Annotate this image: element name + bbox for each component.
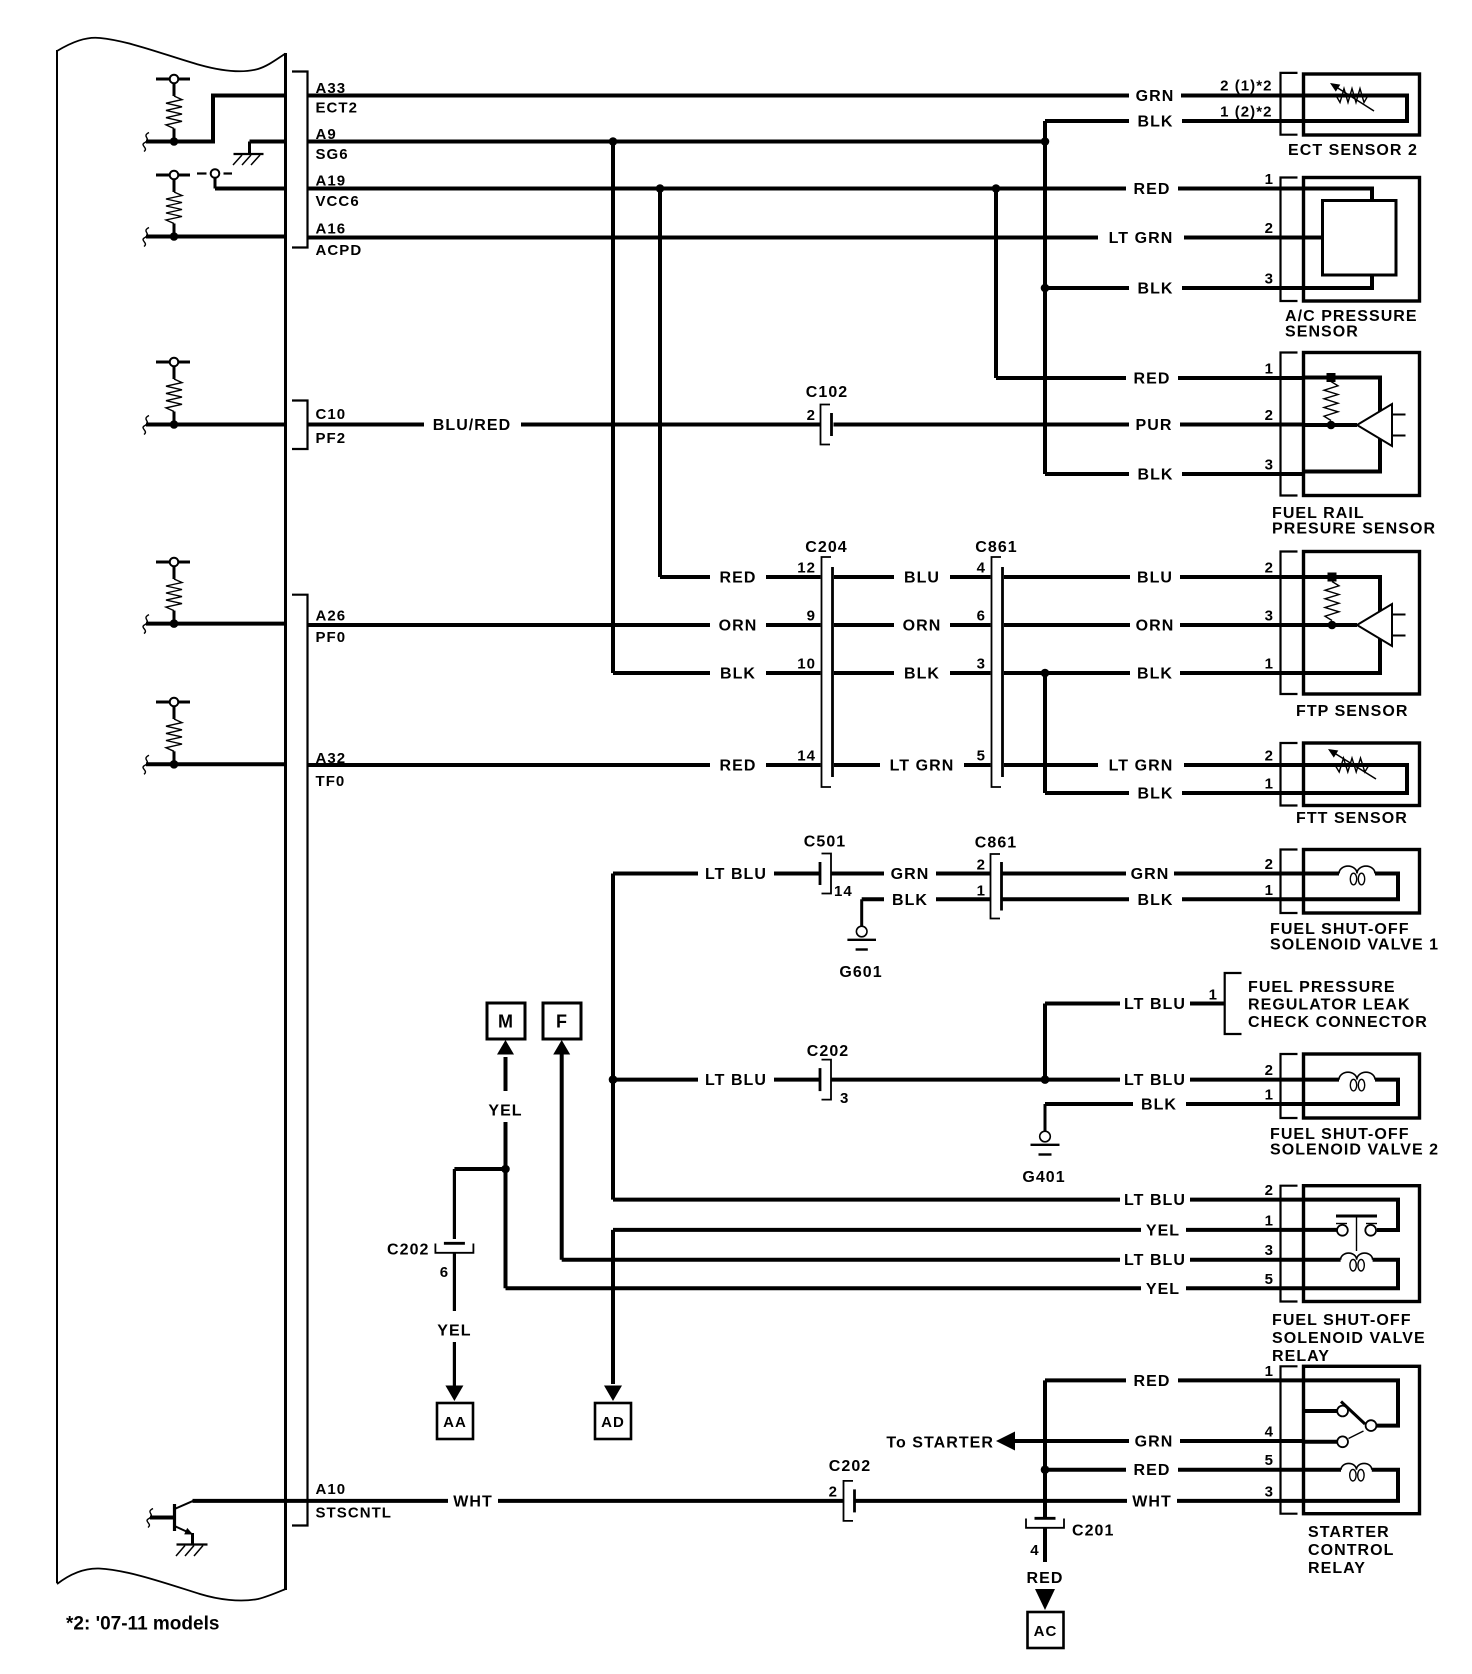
svg-text:2 (1)*2: 2 (1)*2 — [1220, 78, 1272, 95]
svg-text:ECT SENSOR 2: ECT SENSOR 2 — [1288, 142, 1418, 159]
svg-text:14: 14 — [834, 883, 853, 900]
component box FTT SENSOR — [1304, 743, 1420, 806]
svg-text:BLK: BLK — [892, 892, 928, 909]
wire FTP SENSOR pin 1 BLK — [613, 671, 710, 675]
arrowhead into AA box — [445, 1386, 463, 1402]
thermistor element FTT SENSOR — [1304, 765, 1408, 793]
ECU block left edge — [56, 50, 58, 1583]
svg-text:RED: RED — [1027, 1570, 1064, 1587]
svg-text:1: 1 — [1265, 361, 1274, 378]
svg-text:A/C PRESSURE: A/C PRESSURE — [1285, 308, 1418, 325]
svg-text:C202: C202 — [829, 1458, 871, 1475]
junction dot M branch — [501, 1165, 510, 1174]
svg-text:RED: RED — [1134, 371, 1171, 388]
svg-text:3: 3 — [1265, 271, 1274, 288]
connector C202 pin 6 — [444, 1242, 465, 1245]
component box FUEL SHUT-OFF SOLENOID VALVE RELAY — [1304, 1186, 1420, 1302]
svg-text:G401: G401 — [1022, 1169, 1065, 1186]
junction dot starter RED — [1041, 1465, 1050, 1474]
component bracket FUEL SHUT-OFF SOLENOID VALVE 1 — [1281, 850, 1298, 914]
internal wire PF2 pin C10 — [146, 423, 286, 427]
arrowhead into AD box — [604, 1386, 622, 1402]
svg-text:PUR: PUR — [1136, 417, 1173, 434]
wire YEL to FUEL SHUT-OFF SOLENOID VALVE RELAY pin 5 — [506, 1286, 1142, 1290]
svg-text:RED: RED — [1134, 1373, 1171, 1390]
connector C102 pin 2 — [821, 405, 831, 445]
flow box F — [543, 1003, 581, 1039]
svg-text:AA: AA — [443, 1414, 467, 1431]
svg-text:LT GRN: LT GRN — [1109, 758, 1174, 775]
ECU internal transistor STSCNTL driver — [173, 1504, 176, 1531]
svg-text:FUEL SHUT-OFF: FUEL SHUT-OFF — [1270, 1126, 1410, 1143]
arrowhead into M box — [497, 1040, 514, 1055]
internal wire STSCNTL pin A10 — [193, 1499, 308, 1503]
svg-text:LT BLU: LT BLU — [1124, 1072, 1186, 1089]
wire STARTER CONTROL RELAY pin 5 RED — [1045, 1468, 1126, 1472]
wire LT BLU to FUEL SHUT-OFF SOLENOID VALVE 2 pin 2 — [613, 1078, 698, 1082]
wire break squiggle ECT2 internal — [143, 133, 149, 152]
svg-text:TF0: TF0 — [316, 773, 346, 790]
ECU internal pull-up resistor for PF2 wire — [156, 361, 190, 364]
wire FUEL SHUT-OFF SOLENOID VALVE 1 pin 1 BLK — [862, 897, 884, 901]
svg-text:1: 1 — [1265, 882, 1274, 899]
arrowhead into AC box — [1035, 1589, 1055, 1610]
connector C202 pin 2 bottom — [844, 1481, 854, 1521]
wire A33 to ECT SENSOR 2 pin 2 GRN — [308, 94, 1130, 98]
wire To STARTER GRN STARTER CONTROL RELAY pin 4 — [1015, 1439, 1129, 1443]
wire A/C PRESSURE SENSOR pin 3 BLK — [1045, 286, 1129, 290]
svg-text:BLK: BLK — [1137, 786, 1173, 803]
svg-text:FUEL SHUT-OFF: FUEL SHUT-OFF — [1270, 921, 1410, 938]
ground symbol G601 — [856, 926, 867, 937]
vertical wire F box to relay pin 3 LT BLU — [560, 1054, 564, 1260]
ground symbol G401 — [1040, 1131, 1051, 1142]
svg-text:LT BLU: LT BLU — [1124, 1252, 1186, 1269]
svg-text:C102: C102 — [806, 384, 848, 401]
svg-text:ACPD: ACPD — [316, 242, 363, 259]
junction dot VCC6 branch at x660 — [656, 184, 665, 193]
vertical wire C201 to AC box RED — [1043, 1529, 1047, 1563]
ECU internal terminal circle VCC6 — [197, 172, 207, 174]
solenoid coil FUEL SHUT-OFF SOLENOID VALVE 2 — [1304, 1078, 1340, 1082]
svg-text:6: 6 — [440, 1264, 449, 1281]
svg-text:ORN: ORN — [903, 618, 942, 635]
chassis ground symbol transistor emitter — [177, 1543, 208, 1545]
wire LT BLU GRN to FUEL SHUT-OFF SOLENOID VALVE 1 pin 2 — [613, 872, 698, 876]
component box FUEL SHUT-OFF SOLENOID VALVE 2 — [1304, 1054, 1420, 1118]
chassis ground symbol SG6 — [234, 153, 264, 155]
component bracket FUEL RAIL PRESURE SENSOR — [1281, 353, 1298, 496]
svg-text:AD: AD — [601, 1414, 625, 1431]
svg-text:ORN: ORN — [1136, 618, 1175, 635]
svg-text:5: 5 — [1265, 1271, 1274, 1288]
component box FTP SENSOR — [1304, 552, 1420, 695]
svg-text:4: 4 — [1265, 1424, 1274, 1441]
sensor element A/C PRESSURE SENSOR — [1304, 189, 1373, 201]
wire break squiggle transistor base — [147, 1509, 153, 1528]
svg-text:LT BLU: LT BLU — [1124, 996, 1186, 1013]
svg-text:C10: C10 — [316, 406, 347, 423]
svg-text:6: 6 — [977, 608, 986, 625]
svg-text:BLU: BLU — [1137, 570, 1173, 587]
svg-text:PF0: PF0 — [316, 629, 347, 646]
svg-text:YEL: YEL — [437, 1323, 471, 1340]
svg-text:LT BLU: LT BLU — [705, 866, 767, 883]
wire break squiggle TF0 internal — [143, 755, 149, 774]
svg-text:RELAY: RELAY — [1272, 1348, 1330, 1365]
component bracket FTT SENSOR — [1281, 743, 1298, 806]
svg-text:REGULATOR LEAK: REGULATOR LEAK — [1248, 997, 1411, 1014]
wire break squiggle PF2 internal — [143, 416, 149, 435]
svg-text:LT BLU: LT BLU — [705, 1072, 767, 1089]
component box ECT SENSOR 2 — [1304, 74, 1420, 135]
svg-text:3: 3 — [840, 1090, 849, 1107]
svg-text:RELAY: RELAY — [1308, 1560, 1366, 1577]
To STARTER arrow — [996, 1432, 1015, 1451]
svg-text:2: 2 — [1265, 220, 1274, 237]
svg-text:1: 1 — [1209, 987, 1218, 1004]
wire break squiggle PF0 internal — [143, 615, 149, 634]
svg-text:1: 1 — [1265, 656, 1274, 673]
svg-text:RED: RED — [1134, 181, 1171, 198]
svg-text:BLK: BLK — [1137, 467, 1173, 484]
internal wire SG6 pin A9 — [250, 140, 286, 144]
wire FTT SENSOR pin 1 BLK — [1045, 791, 1129, 795]
wire FUEL SHUT-OFF SOLENOID VALVE 2 pin 1 BLK — [1045, 1102, 1133, 1106]
component bracket FUEL SHUT-OFF SOLENOID VALVE RELAY — [1281, 1186, 1298, 1302]
component bracket STARTER CONTROL RELAY — [1281, 1366, 1298, 1513]
relay coil FUEL SHUT-OFF SOLENOID VALVE RELAY — [1304, 1258, 1341, 1262]
svg-text:C861: C861 — [975, 539, 1017, 556]
arrowhead into F box — [553, 1040, 570, 1055]
junction dot VCC6 branch at x996 — [992, 184, 1001, 193]
internal wire ECT2 pin A33 — [146, 96, 286, 142]
svg-text:PRESURE SENSOR: PRESURE SENSOR — [1272, 521, 1436, 538]
svg-text:3: 3 — [1265, 1483, 1274, 1500]
svg-text:RED: RED — [720, 758, 757, 775]
component bracket FTP SENSOR — [1281, 552, 1298, 695]
vertical wire BLK bus ECT/AC/fuel-rail — [1043, 121, 1047, 474]
svg-text:1 (2)*2: 1 (2)*2 — [1220, 104, 1272, 121]
svg-text:5: 5 — [1265, 1452, 1274, 1469]
connector C201 pin 4 — [1035, 1517, 1056, 1520]
wire STARTER CONTROL RELAY pin 1 RED — [1045, 1378, 1126, 1382]
vertical wire SG6 branch to FTP BLK — [611, 142, 615, 674]
svg-text:LT GRN: LT GRN — [1109, 230, 1174, 247]
svg-text:BLK: BLK — [1141, 1097, 1177, 1114]
svg-text:10: 10 — [797, 656, 816, 673]
wire break squiggle ACPD internal — [143, 228, 149, 247]
wire A16 ACPD to A/C PRESSURE SENSOR pin 2 LT GRN — [308, 236, 1099, 240]
junction dot AC-BLK bus — [1041, 284, 1050, 293]
svg-text:ECT2: ECT2 — [316, 100, 359, 117]
svg-text:CHECK CONNECTOR: CHECK CONNECTOR — [1248, 1014, 1428, 1031]
svg-text:WHT: WHT — [453, 1493, 493, 1510]
svg-text:F: F — [556, 1012, 568, 1032]
connector C501 pin 14 — [822, 854, 832, 894]
svg-text:SOLENOID VALVE 1: SOLENOID VALVE 1 — [1270, 937, 1439, 954]
internal wire PF0 pin A26 — [146, 622, 286, 626]
internal wire VCC6 pin A19 — [215, 187, 286, 191]
svg-text:3: 3 — [1265, 608, 1274, 625]
component box FUEL SHUT-OFF SOLENOID VALVE 1 — [1304, 850, 1420, 914]
connector C204 — [822, 557, 832, 787]
flow box AD — [595, 1403, 631, 1439]
ECU block torn top edge — [57, 38, 286, 72]
connector C861 valve1 — [991, 854, 1001, 919]
svg-text:A16: A16 — [316, 221, 347, 238]
svg-text:GRN: GRN — [1131, 866, 1170, 883]
connector C861 main — [992, 557, 1002, 787]
svg-text:YEL: YEL — [488, 1103, 522, 1120]
svg-text:3: 3 — [977, 656, 986, 673]
svg-text:BLU: BLU — [904, 570, 940, 587]
svg-text:LT GRN: LT GRN — [890, 758, 955, 775]
svg-text:BLK: BLK — [720, 666, 756, 683]
svg-text:1: 1 — [1265, 1212, 1274, 1229]
wire YEL to FUEL SHUT-OFF SOLENOID VALVE RELAY pin 1 — [613, 1228, 1141, 1232]
svg-text:A10: A10 — [316, 1481, 347, 1498]
flow box M — [487, 1003, 525, 1039]
svg-text:1: 1 — [1265, 171, 1274, 188]
wire M branch to AA branch — [454, 1167, 505, 1171]
component box A/C PRESSURE SENSOR — [1304, 178, 1420, 302]
ECU connector bracket A33-A16 group — [292, 72, 308, 248]
svg-text:2: 2 — [1265, 856, 1274, 873]
svg-text:1: 1 — [1265, 1363, 1274, 1380]
svg-text:LT BLU: LT BLU — [1124, 1192, 1186, 1209]
wire C10 PF2 BLU/RED to FUEL RAIL PRESURE SENSOR pin 2 PUR — [308, 423, 425, 427]
svg-text:3: 3 — [1265, 457, 1274, 474]
ground stub G601 — [860, 899, 863, 926]
junction dot FTP BLK — [1041, 669, 1050, 678]
svg-text:SOLENOID VALVE 2: SOLENOID VALVE 2 — [1270, 1142, 1439, 1159]
wire FTP SENSOR pin 2 RED/BLU/BLU — [660, 575, 710, 579]
component box STARTER CONTROL RELAY — [1304, 1366, 1420, 1513]
svg-text:GRN: GRN — [891, 866, 930, 883]
svg-text:BLK: BLK — [904, 666, 940, 683]
svg-text:FUEL PRESSURE: FUEL PRESSURE — [1248, 979, 1396, 996]
svg-text:To STARTER: To STARTER — [886, 1435, 994, 1452]
svg-text:FUEL RAIL: FUEL RAIL — [1272, 505, 1365, 522]
svg-text:C202: C202 — [387, 1242, 429, 1259]
svg-text:1: 1 — [977, 883, 986, 900]
svg-text:FTT SENSOR: FTT SENSOR — [1296, 810, 1408, 827]
vertical wire RED starter relay pins 1-5 to C201 — [1043, 1380, 1047, 1517]
svg-text:YEL: YEL — [1146, 1222, 1180, 1239]
vertical wire VCC6 branch to fuel rail RED — [994, 189, 998, 379]
svg-text:A26: A26 — [316, 608, 347, 625]
component bracket FUEL SHUT-OFF SOLENOID VALVE 2 — [1281, 1054, 1298, 1118]
junction dot SG6-BLK bus — [1041, 137, 1050, 146]
internal wire ACPD pin A16 — [146, 235, 286, 239]
vertical wire FTP BLK to FTT BLK — [1043, 673, 1047, 793]
wire A19 VCC6 to A/C PRESSURE SENSOR pin 1 RED — [308, 187, 1127, 191]
svg-text:2: 2 — [1265, 1062, 1274, 1079]
svg-text:C861: C861 — [975, 835, 1017, 852]
svg-text:BLK: BLK — [1137, 892, 1173, 909]
svg-text:YEL: YEL — [1146, 1281, 1180, 1298]
relay switch FUEL SHUT-OFF SOLENOID VALVE RELAY — [1304, 1200, 1399, 1230]
svg-text:CONTROL: CONTROL — [1308, 1542, 1394, 1559]
wire A26 PF0 ORN to FTP SENSOR pin 3 — [308, 623, 711, 627]
svg-text:3: 3 — [1265, 1242, 1274, 1259]
vertical wire LT BLU valve1 to relay pin 2 — [611, 874, 615, 1200]
svg-text:4: 4 — [977, 560, 986, 577]
svg-text:RED: RED — [1134, 1462, 1171, 1479]
flow box AC — [1028, 1612, 1064, 1648]
svg-text:C204: C204 — [805, 539, 847, 556]
connector bracket FUEL PRESSURE REGULATOR LEAK CHECK CONNECTOR — [1225, 973, 1242, 1034]
component bracket A/C PRESSURE SENSOR — [1281, 178, 1298, 302]
ECU internal pull-up resistor for PF0 wire — [156, 561, 190, 564]
vertical wire LT BLU leak connector branch — [1043, 1004, 1047, 1080]
vertical wire VCC6 branch to FTP RED — [658, 189, 662, 578]
relay coil STARTER CONTROL RELAY — [1304, 1468, 1342, 1472]
wire LT BLU to FUEL PRESSURE REGULATOR LEAK CHECK CONNECTOR pin 1 — [1045, 1002, 1120, 1006]
sensor element FTP SENSOR — [1304, 577, 1381, 673]
svg-text:BLU/RED: BLU/RED — [433, 417, 511, 434]
internal wire TF0 pin A32 — [146, 762, 286, 766]
svg-text:2: 2 — [1265, 1182, 1274, 1199]
ECU internal pull-up resistor for ACPD wire — [156, 174, 190, 177]
junction dot SG6 branch — [609, 137, 618, 146]
component box FUEL RAIL PRESURE SENSOR — [1304, 353, 1420, 496]
svg-text:C501: C501 — [804, 834, 846, 851]
solenoid coil FUEL SHUT-OFF SOLENOID VALVE 1 — [1304, 872, 1340, 876]
svg-text:BLK: BLK — [1137, 281, 1173, 298]
junction dot LT BLU leak branch — [1041, 1075, 1050, 1084]
svg-text:1: 1 — [1265, 1087, 1274, 1104]
svg-text:PF2: PF2 — [316, 430, 347, 447]
wire LT BLU to FUEL SHUT-OFF SOLENOID VALVE RELAY pin 2 — [613, 1198, 1120, 1202]
svg-text:2: 2 — [829, 1484, 838, 1501]
wire ECT SENSOR 2 pin 1 BLK — [1045, 119, 1129, 123]
svg-text:FUEL SHUT-OFF: FUEL SHUT-OFF — [1272, 1312, 1412, 1329]
internal ground stub SG6 — [248, 142, 251, 154]
svg-text:FTP SENSOR: FTP SENSOR — [1296, 703, 1408, 720]
svg-text:9: 9 — [807, 608, 816, 625]
svg-text:STSCNTL: STSCNTL — [316, 1505, 393, 1522]
connector C202 pin 3 — [822, 1060, 832, 1100]
svg-text:*2: '07-11 models: *2: '07-11 models — [66, 1614, 219, 1635]
svg-text:14: 14 — [797, 748, 816, 765]
svg-text:G601: G601 — [839, 964, 882, 981]
svg-text:AC: AC — [1034, 1623, 1058, 1640]
wire FUEL RAIL PRESURE SENSOR pin 3 BLK — [1045, 472, 1129, 476]
wire LT BLU to FUEL SHUT-OFF SOLENOID VALVE RELAY pin 3 — [562, 1258, 1120, 1262]
svg-text:SOLENOID VALVE: SOLENOID VALVE — [1272, 1330, 1426, 1347]
svg-text:2: 2 — [1265, 560, 1274, 577]
ECU block right edge — [284, 53, 287, 1590]
ECU block torn bottom edge — [57, 1568, 286, 1600]
junction dot LT BLU at valve2 row — [609, 1075, 618, 1084]
wire A10 STSCNTL WHT to STARTER CONTROL RELAY pin 3 — [308, 1499, 449, 1503]
wire A9 SG6 — [308, 140, 1046, 144]
ECU connector bracket C10 group — [292, 401, 308, 450]
svg-text:M: M — [498, 1012, 514, 1032]
vertical wire AA branch YEL — [453, 1169, 456, 1239]
svg-text:GRN: GRN — [1135, 1434, 1174, 1451]
svg-text:SENSOR: SENSOR — [1285, 324, 1359, 341]
svg-text:2: 2 — [807, 407, 816, 424]
svg-text:C202: C202 — [807, 1043, 849, 1060]
sensor element FUEL RAIL PRESURE SENSOR — [1304, 378, 1381, 472]
ECU internal pull-up resistor for TF0 wire — [156, 701, 190, 704]
ECU connector bracket A26-A32-A10 group — [292, 595, 308, 1526]
relay switch STARTER CONTROL RELAY — [1304, 1380, 1399, 1425]
svg-text:ORN: ORN — [719, 618, 758, 635]
component bracket ECT SENSOR 2 — [1281, 73, 1298, 135]
svg-text:12: 12 — [797, 560, 816, 577]
wire A32 TF0 RED LT GRN to FTT SENSOR pin 2 — [308, 763, 711, 767]
svg-text:SG6: SG6 — [316, 146, 349, 163]
ground stub G401 — [1044, 1104, 1047, 1131]
svg-text:VCC6: VCC6 — [316, 193, 360, 210]
wire FUEL RAIL PRESURE SENSOR pin 1 RED — [996, 376, 1126, 380]
thermistor element ECT SENSOR 2 — [1304, 96, 1408, 122]
svg-text:2: 2 — [1265, 407, 1274, 424]
svg-text:5: 5 — [977, 748, 986, 765]
svg-text:RED: RED — [720, 570, 757, 587]
svg-text:1: 1 — [1265, 776, 1274, 793]
vertical wire relay pin1 YEL to AD box — [611, 1230, 615, 1384]
svg-text:WHT: WHT — [1132, 1493, 1172, 1510]
svg-text:2: 2 — [977, 857, 986, 874]
flow box AA — [437, 1403, 473, 1439]
vertical wire M box to relay pin 5 YEL — [504, 1057, 508, 1091]
svg-text:BLK: BLK — [1137, 666, 1173, 683]
svg-text:BLK: BLK — [1137, 114, 1173, 131]
svg-text:STARTER: STARTER — [1308, 1524, 1390, 1541]
svg-text:2: 2 — [1265, 748, 1274, 765]
svg-text:GRN: GRN — [1136, 88, 1175, 105]
svg-text:C201: C201 — [1072, 1523, 1114, 1540]
svg-text:4: 4 — [1030, 1542, 1039, 1559]
ECU internal pull-up resistor for ECT2 wire — [156, 78, 190, 81]
